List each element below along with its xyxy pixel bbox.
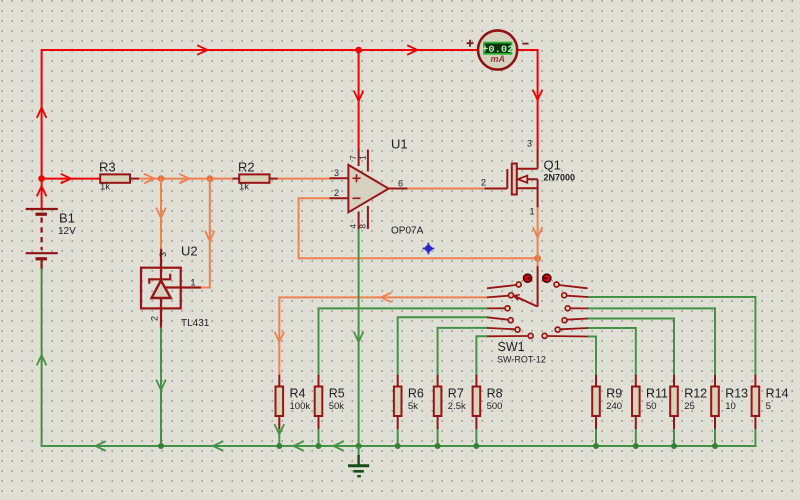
node: bus junction at R9: [593, 443, 599, 449]
wire: orange Q1 source down to switch pole: [537, 207, 539, 266]
wire: top red bus from battery node to ammeter: [42, 50, 478, 209]
node: bus junction at R8: [473, 443, 479, 449]
svg-text:R7: R7: [448, 387, 464, 401]
node: bus junction at ground symbol: [356, 443, 362, 449]
svg-text:5: 5: [766, 401, 771, 412]
wire: green U2 pin2 to ground bus: [160, 328, 162, 447]
resistor R5 value 50k: [315, 375, 345, 429]
svg-text:1: 1: [191, 278, 196, 288]
resistor R7 value 2.5k: [434, 375, 466, 429]
wire: green ground bus: [42, 445, 756, 447]
svg-text:240: 240: [606, 401, 622, 412]
svg-text:1k: 1k: [239, 182, 249, 193]
svg-text:2N7000: 2N7000: [544, 173, 576, 183]
wire: red drop to U1 pin 7: [358, 50, 360, 150]
svg-text:1: 1: [358, 155, 368, 160]
wire: arrow down to U2 pin3: [157, 209, 166, 219]
op-amp U1: [330, 137, 424, 237]
switch red button down: [543, 274, 551, 282]
resistor R3: [99, 160, 139, 193]
wire: orange U1 pin6 to Q1 gate: [408, 188, 485, 190]
resistor R4 value 100k: [276, 375, 311, 429]
wire: arrow up on left red wire: [37, 108, 46, 118]
wire: green U1 pin4 to ground bus: [358, 229, 360, 446]
wire: green R13 to switch: [588, 308, 715, 374]
svg-text:SW1: SW1: [498, 340, 525, 354]
wire: arrow down into R4: [275, 333, 284, 343]
ground: [348, 446, 369, 476]
wire: orange arrow right mid: [180, 174, 190, 183]
wire: arrow down below R4: [275, 425, 284, 435]
wire: battery node to R3: [42, 178, 100, 180]
svg-text:1: 1: [529, 207, 534, 217]
svg-text:R2: R2: [238, 160, 255, 175]
wire: green R5 to switch: [319, 308, 488, 374]
svg-text:2: 2: [334, 188, 339, 198]
svg-text:R11: R11: [646, 387, 668, 401]
svg-text:R14: R14: [766, 387, 789, 401]
wire: green R14 to switch: [588, 297, 755, 375]
svg-text:8: 8: [358, 224, 368, 229]
battery B1: [26, 209, 58, 269]
wire: arrow down to U2 pin1: [205, 232, 214, 242]
wire: arrow left on R4 feed: [381, 293, 391, 302]
wire: arrow up between battery and junction: [37, 186, 46, 196]
resistor R9 value 240: [592, 375, 622, 429]
wire: arrow right on top bus 1: [198, 46, 208, 55]
svg-text:5k: 5k: [408, 401, 418, 412]
svg-text:2.5k: 2.5k: [448, 401, 466, 412]
wire: bus arrow left 1: [96, 442, 106, 451]
wire: orange net R3 to R2: [138, 178, 233, 180]
wire: orange arrow right after R3: [145, 174, 155, 183]
svg-text:50: 50: [646, 401, 657, 412]
wire: green R12 to switch: [588, 319, 674, 375]
svg-text:R3: R3: [99, 160, 116, 175]
node: bus junction at R7: [435, 443, 441, 449]
switch pole: [537, 266, 539, 306]
resistor R8 value 500: [473, 375, 503, 429]
svg-text:R9: R9: [606, 387, 622, 401]
svg-text:2: 2: [481, 178, 486, 188]
svg-text:mA: mA: [491, 54, 506, 64]
wire: orange R2 to U1 pin3: [277, 178, 330, 180]
wire: orange drop to U2 pin 3: [160, 179, 162, 249]
wire: orange feedback U1 pin2 to switch pole: [299, 198, 538, 258]
node: bus junction at R11: [633, 443, 639, 449]
rotary switch SW1: [487, 266, 588, 364]
ammeter: [467, 30, 529, 69]
wire: green R11 to switch: [588, 328, 636, 375]
wire: arrow right on top bus 2: [408, 46, 418, 55]
svg-text:12V: 12V: [58, 226, 76, 237]
svg-text:R13: R13: [725, 387, 748, 401]
node: orange junction switch pole: [534, 255, 541, 262]
svg-text:R8: R8: [487, 387, 503, 401]
node: orange junction at x161: [158, 175, 165, 182]
svg-text:U2: U2: [181, 244, 198, 259]
switch wiper arm: [514, 296, 538, 307]
wire: bus arrow left 2: [213, 442, 223, 451]
wire: arrow down on U1 pin7 drop: [354, 92, 363, 102]
switch contacts right: [547, 285, 588, 337]
svg-text:3: 3: [527, 139, 532, 149]
node: bus junction at R13: [712, 443, 718, 449]
svg-text:R4: R4: [290, 387, 306, 401]
svg-text:U1: U1: [391, 137, 408, 152]
resistor R13 value 10: [711, 375, 748, 429]
svg-text:7: 7: [348, 155, 358, 160]
wire: arrow up on battery green wire: [37, 355, 46, 365]
wire: ammeter right to Q1 drain drop: [518, 50, 537, 150]
wire: arrow down Q1 source: [533, 228, 542, 238]
node: bus junction at R6: [395, 443, 401, 449]
svg-text:B1: B1: [59, 211, 75, 226]
TL431 U2: [141, 244, 210, 330]
svg-text:10: 10: [725, 401, 736, 412]
wire: bus arrow left 4: [334, 442, 344, 451]
svg-text:2: 2: [150, 316, 160, 321]
wire: arrow down on Q1 drain drop: [533, 91, 542, 101]
wire: arrow right before R3: [62, 174, 72, 183]
wire: green R6 to switch: [398, 317, 487, 375]
svg-text:R12: R12: [684, 387, 707, 401]
wire: orange switch contact2 to R4: [279, 297, 487, 374]
svg-text:100k: 100k: [290, 401, 311, 412]
wire: arrow down on center ground wire: [354, 333, 363, 343]
wire: orange drop to U2 pin 1: [201, 179, 210, 288]
resistor R11 value 50: [632, 375, 668, 429]
svg-text:4: 4: [348, 224, 358, 229]
wire: green R7 to switch: [438, 328, 487, 375]
wire: green resistor bottoms to bus: [279, 429, 755, 446]
wire: bus arrow left 3: [294, 442, 304, 451]
transistor Q1 (2N7000): [481, 139, 575, 217]
node: bus junction at R4: [276, 443, 282, 449]
svg-text:25: 25: [684, 401, 695, 412]
node: red junction at battery top: [38, 175, 45, 182]
node: orange junction at x209.8: [207, 175, 214, 182]
svg-text:OP07A: OP07A: [391, 226, 424, 237]
node: bus junction at U2 ground: [158, 443, 164, 449]
svg-text:R5: R5: [329, 387, 345, 401]
svg-text:R6: R6: [408, 387, 424, 401]
wire: green battery minus to bus: [41, 269, 43, 446]
node: bus junction at R12: [671, 443, 677, 449]
svg-text:Q1: Q1: [544, 158, 561, 173]
node: bus junction at R5: [316, 443, 322, 449]
switch red button up: [524, 274, 532, 282]
resistor R12 value 25: [670, 375, 707, 429]
svg-text:3: 3: [158, 252, 168, 257]
origin marker: [423, 243, 435, 255]
svg-text:50k: 50k: [329, 401, 345, 412]
svg-text:TL431: TL431: [181, 318, 210, 329]
wire: arrow down on U2 ground wire: [157, 381, 166, 391]
svg-text:6: 6: [398, 179, 403, 189]
svg-text:SW-ROT-12: SW-ROT-12: [497, 355, 546, 365]
resistor R14 value 5: [752, 375, 789, 429]
node: red junction at U1 pin7 drop: [355, 47, 362, 54]
svg-text:3: 3: [334, 168, 339, 178]
switch contacts left: [487, 285, 528, 336]
wire: green R9 to switch: [588, 337, 596, 375]
svg-text:500: 500: [487, 401, 503, 412]
resistor R6 value 5k: [394, 375, 424, 429]
wire: green R8 to switch: [476, 336, 487, 375]
svg-text:1k: 1k: [100, 182, 110, 193]
resistor R2: [233, 160, 278, 193]
